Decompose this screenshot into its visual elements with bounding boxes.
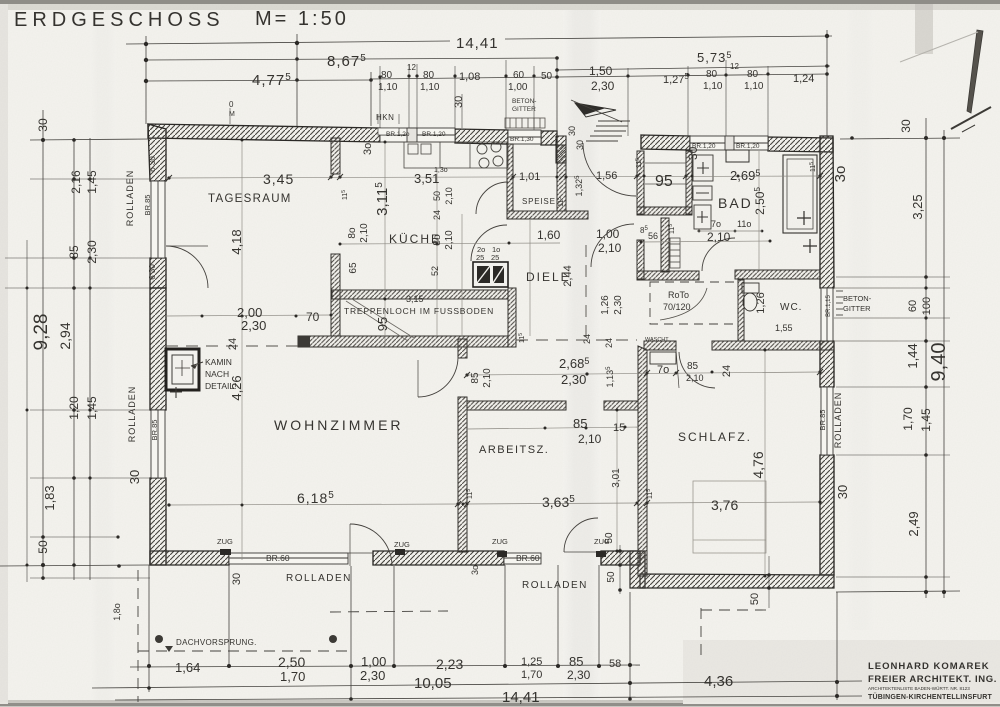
svg-text:1,10: 1,10 bbox=[420, 82, 440, 93]
entry stair: steps bbox=[586, 121, 630, 141]
svg-text:2,10: 2,10 bbox=[444, 187, 454, 205]
svg-text:4,18: 4,18 bbox=[229, 229, 244, 254]
svg-text:7o: 7o bbox=[657, 364, 669, 376]
svg-text:BAD: BAD bbox=[718, 195, 753, 211]
wall: Bad south bbox=[637, 270, 820, 280]
window: Schlafzimmer window right wall BR.85 bbox=[821, 387, 833, 455]
window: Wohnzimmer window left wall bbox=[151, 410, 165, 478]
wall: Speise east / vestibule west bbox=[557, 145, 566, 211]
svg-text:3,15: 3,15 bbox=[406, 294, 424, 304]
window: WC window right wall (Beton-Gitter) bbox=[821, 288, 833, 341]
wall: Diele/anteroom divider bbox=[637, 240, 644, 279]
svg-text:1,55: 1,55 bbox=[775, 323, 793, 333]
svg-text:30: 30 bbox=[567, 126, 577, 136]
svg-text:85: 85 bbox=[470, 372, 481, 384]
svg-text:50: 50 bbox=[36, 540, 50, 554]
wc radiator marks on right wall bbox=[836, 291, 843, 315]
svg-text:85: 85 bbox=[67, 245, 81, 259]
svg-text:0: 0 bbox=[229, 100, 234, 109]
svg-text:2,94: 2,94 bbox=[57, 322, 73, 349]
dim line: 5,73 top bbox=[557, 66, 830, 70]
svg-text:RoTo: RoTo bbox=[668, 290, 689, 300]
beton-gitter grating right (outside WC window) bbox=[834, 288, 900, 341]
svg-text:85: 85 bbox=[569, 654, 583, 669]
svg-text:ARBEITSZ.: ARBEITSZ. bbox=[479, 444, 549, 456]
vertical chain x242 Tagesraum/Wohnzimmer bbox=[241, 140, 243, 560]
svg-text:30: 30 bbox=[231, 573, 243, 585]
svg-text:10,05: 10,05 bbox=[414, 675, 452, 692]
svg-text:1,00: 1,00 bbox=[596, 227, 620, 241]
dim line: top small chain left bbox=[371, 77, 557, 79]
svg-text:1,70: 1,70 bbox=[280, 669, 305, 684]
svg-text:1,10: 1,10 bbox=[703, 81, 723, 92]
door: entry door arc bbox=[583, 143, 636, 196]
svg-text:70/120: 70/120 bbox=[663, 302, 691, 312]
svg-text:BETON-: BETON- bbox=[512, 98, 536, 105]
pillar: dark end of Wohnzimmer north wall bbox=[298, 336, 310, 347]
wall: Speise west bbox=[507, 144, 513, 211]
svg-text:1,45: 1,45 bbox=[919, 408, 933, 432]
svg-text:1,44: 1,44 bbox=[905, 343, 920, 368]
door: Diele door arc near kitchen bbox=[471, 225, 507, 261]
window: bath windows BR.1,20 pair in top right wall bbox=[690, 136, 768, 150]
bath tall window/door with crosses bbox=[783, 155, 817, 253]
svg-text:ROLLADEN: ROLLADEN bbox=[522, 580, 588, 591]
svg-text:DACHVORSPRUNG.: DACHVORSPRUNG. bbox=[176, 638, 257, 647]
left horizontal ticks bbox=[30, 139, 150, 140]
svg-text:1,70: 1,70 bbox=[901, 407, 915, 431]
closet shelf lines bbox=[645, 163, 686, 184]
wall: left exterior bbox=[148, 124, 166, 565]
wall: stairwell south / Wohnzimmer north bbox=[298, 336, 508, 347]
vertical chain x617 Arbeitsz bbox=[616, 410, 618, 551]
svg-text:2,10: 2,10 bbox=[444, 230, 455, 250]
svg-text:ROLLADEN: ROLLADEN bbox=[125, 170, 135, 227]
wall: right exterior bbox=[820, 136, 834, 575]
entry stair: slope triangle bbox=[575, 103, 616, 117]
chain line y374 through Diele/Schlafz bbox=[467, 372, 820, 375]
wall: Arbeitsz/Schlafz partition bbox=[638, 346, 647, 576]
svg-text:25: 25 bbox=[476, 253, 484, 262]
svg-text:11o: 11o bbox=[737, 219, 751, 229]
svg-text:ROLLADEN: ROLLADEN bbox=[286, 573, 352, 584]
svg-text:NACH: NACH bbox=[205, 369, 229, 379]
drafting needle top right bbox=[900, 30, 991, 132]
stair sketch in stairwell bbox=[346, 299, 414, 341]
right horizontal ticks bbox=[840, 138, 960, 139]
window: Tagesraum window left wall bbox=[151, 181, 165, 258]
svg-text:2,10: 2,10 bbox=[359, 223, 370, 243]
dim line: overall 14,41 top bbox=[126, 41, 450, 44]
svg-text:60: 60 bbox=[513, 70, 525, 81]
left dimension verticals bbox=[26, 240, 28, 582]
svg-text:WC.: WC. bbox=[780, 302, 802, 313]
wall: Kueche/Diele divider bbox=[508, 288, 516, 347]
svg-text:TÜBINGEN-KIRCHENTELLINSFURT: TÜBINGEN-KIRCHENTELLINSFURT bbox=[868, 692, 993, 701]
wall: radiator niche wall bbox=[661, 218, 669, 272]
interior faint chain lines bbox=[166, 140, 820, 576]
svg-text:12: 12 bbox=[407, 63, 416, 72]
svg-text:1,45: 1,45 bbox=[85, 396, 99, 420]
svg-text:2,30: 2,30 bbox=[241, 318, 266, 333]
wall: closet 95 south bbox=[637, 207, 692, 215]
roto 70/120 dashed hatch box in Diele bbox=[650, 282, 738, 324]
svg-text:30: 30 bbox=[127, 470, 142, 484]
slash ticks at wall-end dim points bbox=[166, 173, 823, 507]
svg-text:TAGESRAUM: TAGESRAUM bbox=[208, 193, 292, 205]
interior chain intersection dots bbox=[167, 139, 821, 578]
svg-text:ZUG: ZUG bbox=[217, 537, 233, 546]
svg-text:2,10: 2,10 bbox=[482, 368, 493, 388]
right dots bbox=[924, 136, 928, 140]
vertical chain x385 Kueche bbox=[384, 142, 386, 345]
svg-text:1,3o: 1,3o bbox=[434, 167, 448, 174]
svg-text:3o: 3o bbox=[832, 166, 849, 183]
svg-text:2,44: 2,44 bbox=[562, 265, 574, 286]
svg-text:1,83: 1,83 bbox=[42, 485, 57, 510]
architect title block bbox=[868, 661, 997, 701]
svg-text:60: 60 bbox=[907, 300, 919, 312]
door: vestibule to Diele arc bbox=[591, 224, 634, 267]
bottom dots bbox=[147, 664, 151, 668]
wall: bottom exterior right (Schlafzimmer south) bbox=[640, 574, 834, 588]
kitchen flue block (dark) bbox=[473, 262, 508, 287]
svg-text:LEONHARD KOMAREK: LEONHARD KOMAREK bbox=[868, 661, 990, 672]
svg-text:2,30: 2,30 bbox=[591, 79, 615, 93]
chain line y504 room widths bbox=[166, 504, 458, 505]
svg-text:3o: 3o bbox=[470, 565, 480, 575]
svg-text:1,50: 1,50 bbox=[589, 64, 613, 78]
svg-text:8o: 8o bbox=[347, 227, 358, 239]
svg-text:2,10: 2,10 bbox=[578, 432, 602, 446]
svg-text:30: 30 bbox=[899, 119, 913, 133]
door: Bad door arc bbox=[702, 238, 735, 271]
svg-text:70: 70 bbox=[306, 310, 320, 324]
schlafzimmer washbasin under north wall bbox=[650, 352, 676, 364]
svg-text:8o: 8o bbox=[432, 234, 443, 246]
svg-text:24: 24 bbox=[582, 334, 592, 344]
svg-text:BR.1,30: BR.1,30 bbox=[510, 136, 534, 143]
svg-text:2,30: 2,30 bbox=[561, 372, 586, 387]
door: left wall terrace door opening with swing arc bbox=[166, 246, 208, 288]
dim line: 4,77 top bbox=[146, 80, 371, 81]
window: Speise window BR.1,30 in top wall bbox=[508, 130, 541, 144]
wall: closet 95 east / Bad west bbox=[686, 151, 692, 214]
svg-text:100: 100 bbox=[921, 297, 933, 315]
svg-text:24: 24 bbox=[721, 365, 733, 377]
svg-text:2,10: 2,10 bbox=[686, 373, 704, 383]
svg-text:30: 30 bbox=[36, 118, 50, 132]
dim line: top small chain right bbox=[557, 74, 827, 77]
svg-text:4,36: 4,36 bbox=[704, 673, 733, 690]
svg-text:1,45: 1,45 bbox=[85, 170, 99, 194]
svg-text:ERDGESCHOSS: ERDGESCHOSS bbox=[14, 9, 225, 31]
svg-text:3,01: 3,01 bbox=[611, 468, 622, 488]
svg-text:95: 95 bbox=[375, 317, 390, 331]
svg-text:3,25: 3,25 bbox=[910, 194, 925, 219]
svg-text:2,30: 2,30 bbox=[360, 668, 385, 683]
svg-text:FREIER ARCHITEKT. ING.: FREIER ARCHITEKT. ING. bbox=[868, 674, 997, 685]
svg-text:3,45: 3,45 bbox=[263, 171, 294, 187]
wall: top exterior left segment bbox=[148, 124, 557, 145]
svg-text:2,49: 2,49 bbox=[906, 511, 921, 536]
svg-text:BR.85: BR.85 bbox=[818, 410, 827, 431]
dim line: 8,67 top bbox=[146, 58, 557, 60]
svg-text:3,76: 3,76 bbox=[711, 497, 738, 513]
svg-text:1,10: 1,10 bbox=[744, 81, 764, 92]
vertical chain x765 Schlafz bbox=[764, 350, 766, 576]
wall: bottom exterior left (Wohnzimmer south) bbox=[150, 551, 640, 565]
kitchen hob circles bbox=[477, 142, 503, 168]
svg-text:85: 85 bbox=[573, 416, 587, 431]
svg-text:95: 95 bbox=[655, 173, 673, 190]
svg-text:1,70: 1,70 bbox=[521, 669, 542, 681]
wall: Speise/vestibule south bbox=[507, 211, 588, 219]
svg-text:56: 56 bbox=[648, 231, 658, 241]
projection verticals top bbox=[145, 36, 147, 124]
vertical chain x437/x462 kitchen door bbox=[436, 168, 438, 336]
svg-text:4,76: 4,76 bbox=[750, 451, 766, 478]
chain line y315 Tagesraum opening bbox=[166, 315, 331, 316]
wall: Tagesraum/Kueche partition upper bbox=[331, 138, 340, 174]
svg-text:1,24: 1,24 bbox=[793, 73, 814, 85]
svg-text:1,25: 1,25 bbox=[521, 656, 542, 668]
svg-text:30: 30 bbox=[686, 146, 700, 160]
svg-text:50: 50 bbox=[749, 593, 761, 605]
svg-text:80: 80 bbox=[423, 70, 435, 81]
wall: Wohnzimmer/Arbeitsz partition lower bbox=[458, 397, 467, 552]
wall: Arbeitszimmer north bbox=[467, 401, 638, 410]
svg-text:3o: 3o bbox=[362, 143, 374, 155]
11.5 wall-thickness ticks bbox=[341, 158, 817, 499]
svg-text:M= 1:50: M= 1:50 bbox=[255, 8, 349, 30]
svg-text:30: 30 bbox=[453, 96, 465, 108]
svg-text:BR.1,20: BR.1,20 bbox=[736, 143, 760, 150]
svg-text:BR.1,15: BR.1,15 bbox=[826, 295, 832, 317]
beton-gitter grating top (over Speise window) bbox=[505, 118, 545, 128]
svg-text:58: 58 bbox=[609, 658, 621, 670]
svg-text:50: 50 bbox=[432, 191, 442, 201]
svg-text:12: 12 bbox=[730, 62, 739, 71]
svg-text:80: 80 bbox=[747, 69, 759, 80]
svg-text:80: 80 bbox=[381, 70, 393, 81]
wall: stairwell north (Kueche south) bbox=[332, 290, 508, 299]
svg-text:2,30: 2,30 bbox=[567, 668, 591, 682]
svg-text:HKN: HKN bbox=[376, 113, 394, 122]
svg-text:1,26: 1,26 bbox=[600, 295, 611, 315]
svg-text:50: 50 bbox=[541, 71, 553, 82]
svg-text:TREPPENLOCH IM FUSSBODEN: TREPPENLOCH IM FUSSBODEN bbox=[344, 306, 494, 316]
svg-text:2,10: 2,10 bbox=[598, 241, 622, 255]
bath washbasin fixtures bbox=[693, 155, 713, 229]
kamin (fireplace) on left wall bbox=[166, 349, 199, 398]
svg-text:1,08: 1,08 bbox=[459, 71, 480, 83]
svg-text:1,01: 1,01 bbox=[519, 171, 540, 183]
svg-text:SPEISE: SPEISE bbox=[522, 197, 556, 206]
svg-text:9,40: 9,40 bbox=[928, 343, 950, 382]
svg-text:2,23: 2,23 bbox=[436, 656, 463, 672]
svg-text:24: 24 bbox=[227, 338, 239, 350]
svg-text:6 30: 6 30 bbox=[148, 156, 157, 172]
svg-text:WASCHT.: WASCHT. bbox=[645, 337, 670, 343]
right dimension verticals bbox=[925, 118, 927, 598]
left dots bbox=[41, 138, 45, 142]
svg-text:1,10: 1,10 bbox=[378, 82, 398, 93]
svg-text:WOHNZIMMER: WOHNZIMMER bbox=[274, 417, 404, 433]
svg-text:ZUG: ZUG bbox=[492, 537, 508, 546]
svg-text:52: 52 bbox=[430, 266, 440, 276]
wall: closet 95 west bbox=[637, 151, 644, 214]
svg-text:2,16: 2,16 bbox=[69, 170, 83, 194]
svg-text:85: 85 bbox=[687, 361, 699, 372]
svg-text:30: 30 bbox=[575, 140, 585, 150]
svg-text:2,10: 2,10 bbox=[707, 230, 731, 244]
svg-text:ZUG: ZUG bbox=[594, 537, 610, 546]
kitchen counter along top wall bbox=[404, 142, 508, 168]
chain line y428 Arbeitsz door bbox=[467, 427, 638, 429]
schlafzimmer bed outline bbox=[693, 481, 766, 553]
window: kitchen window BR.1,20 pair in top wall bbox=[380, 128, 455, 142]
svg-text:BR.85: BR.85 bbox=[150, 420, 159, 441]
wc fixture bbox=[742, 283, 759, 311]
svg-text:BR.60: BR.60 bbox=[516, 553, 540, 563]
svg-text:15: 15 bbox=[613, 422, 625, 434]
svg-text:1,20: 1,20 bbox=[67, 396, 81, 420]
window: Wohnzimmer south window BR.60 bbox=[229, 553, 348, 564]
vertical chain x530 Diele bbox=[529, 219, 531, 336]
wall: top exterior right segment bbox=[641, 135, 833, 152]
svg-text:DETAIL!: DETAIL! bbox=[205, 381, 237, 391]
svg-text:ZUG: ZUG bbox=[394, 540, 410, 549]
bottom dim lines bbox=[130, 665, 640, 667]
svg-text:1,8o: 1,8o bbox=[112, 603, 122, 621]
svg-text:ARCHITEKTENLISTE BADEN-WÜRTT.: ARCHITEKTENLISTE BADEN-WÜRTT. NR. 8123 bbox=[868, 685, 970, 691]
svg-text:25: 25 bbox=[491, 253, 499, 262]
wall: WC west bbox=[738, 280, 744, 341]
wall: Schlafzimmer north / WC south bbox=[644, 341, 834, 350]
svg-text:SCHLAFZ.: SCHLAFZ. bbox=[678, 430, 752, 444]
svg-text:65: 65 bbox=[348, 262, 359, 274]
door: Arbeitszimmer south door + arc bbox=[564, 518, 598, 552]
svg-text:BR.1,2o: BR.1,2o bbox=[386, 131, 410, 138]
wall: Tagesraum/Kueche partition lower bbox=[331, 254, 340, 336]
svg-text:BR.1,20: BR.1,20 bbox=[422, 131, 446, 138]
chain line y177 across plan bbox=[166, 176, 820, 178]
svg-text:GITTER: GITTER bbox=[843, 304, 871, 313]
wall: step between bottom walls bbox=[630, 551, 645, 588]
dashed ceiling-beam line Tagesraum/Wohnzimmer bbox=[166, 245, 637, 346]
svg-text:1,26: 1,26 bbox=[755, 292, 767, 313]
svg-text:M: M bbox=[229, 111, 235, 118]
svg-text:2,50: 2,50 bbox=[278, 654, 305, 670]
svg-text:1,56: 1,56 bbox=[596, 170, 617, 182]
svg-text:14,41: 14,41 bbox=[502, 689, 540, 706]
svg-text:1,00: 1,00 bbox=[508, 82, 528, 93]
svg-text:BR.85: BR.85 bbox=[143, 195, 152, 216]
svg-text:50: 50 bbox=[606, 571, 617, 583]
door: Wohnzimmer terrace door + arc bbox=[348, 524, 392, 566]
radiator ladder bbox=[670, 238, 680, 268]
svg-text:7o: 7o bbox=[711, 219, 721, 229]
door: Wohnzimmer/Arbeitsz door arc bbox=[418, 357, 458, 397]
svg-text:GITTER: GITTER bbox=[512, 106, 536, 113]
svg-text:6 30: 6 30 bbox=[148, 264, 157, 280]
svg-text:2,30: 2,30 bbox=[613, 295, 624, 315]
dachvorsprung dashed overhang bbox=[138, 570, 766, 702]
svg-text:ROLLADEN: ROLLADEN bbox=[833, 392, 843, 449]
svg-text:1,64: 1,64 bbox=[175, 660, 200, 675]
svg-text:24: 24 bbox=[432, 210, 442, 220]
door: Kueche door arc bbox=[476, 182, 508, 214]
svg-text:80: 80 bbox=[706, 69, 718, 80]
bath cistern on top wall bbox=[726, 150, 749, 162]
svg-text:BR.60: BR.60 bbox=[266, 553, 290, 563]
window: Arbeitszimmer south window BR.60 bbox=[504, 553, 541, 564]
svg-text:24: 24 bbox=[604, 338, 614, 348]
svg-text:1,60: 1,60 bbox=[537, 228, 561, 242]
vertical chain x690 Bad bbox=[758, 151, 760, 270]
wall: entry jamb next to Speise bbox=[556, 136, 566, 163]
svg-text:1,00: 1,00 bbox=[361, 654, 386, 669]
svg-text:14,41: 14,41 bbox=[456, 35, 499, 52]
svg-text:BETON-: BETON- bbox=[843, 294, 872, 303]
svg-text:KAMIN: KAMIN bbox=[205, 357, 232, 367]
svg-text:2,30: 2,30 bbox=[85, 240, 99, 264]
door: Schlafzimmer door arc bbox=[676, 350, 715, 388]
bottom chain verticals bbox=[148, 565, 150, 692]
svg-text:9,28: 9,28 bbox=[31, 314, 52, 351]
chain line y243 kitchen/hall bbox=[340, 243, 560, 244]
wall: Wohnzimmer/Arbeitsz partition upper stub bbox=[458, 339, 467, 358]
svg-text:ROLLADEN: ROLLADEN bbox=[127, 386, 137, 443]
svg-text:30: 30 bbox=[835, 485, 850, 499]
dachvorsprung posts bbox=[155, 635, 163, 643]
